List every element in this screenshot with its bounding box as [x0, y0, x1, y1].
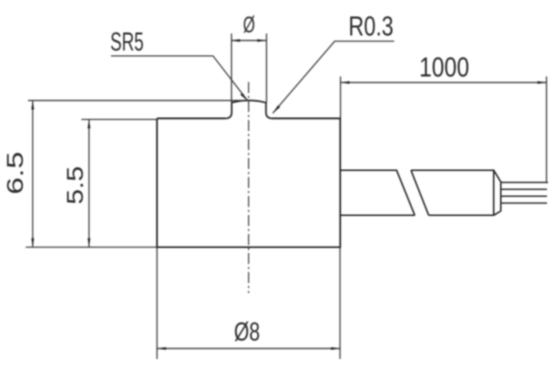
svg-text:6.5: 6.5	[2, 152, 28, 195]
wire 1	[501, 181, 548, 183]
dimension diameter top: arrows	[231, 39, 266, 42]
dimension 6.5: arrows	[31, 101, 34, 248]
dimension 1000: extension lines	[341, 76, 547, 182]
cable segment 1	[340, 170, 415, 215]
dimension 6.5: extension lines	[26, 101, 248, 248]
svg-text:R0.3: R0.3	[349, 10, 394, 41]
dimension 5.5: arrows	[88, 119, 91, 247]
dome boss SR5	[226, 100, 272, 118]
dimension diameter top: extension lines	[231, 34, 267, 103]
svg-text:SR5: SR5	[110, 26, 144, 56]
wire 4	[501, 202, 547, 204]
wire 2	[501, 188, 547, 190]
svg-text:1000: 1000	[419, 52, 469, 83]
dimension 5.5: extension lines	[81, 119, 157, 247]
leader R0.3	[273, 41, 395, 113]
centerline	[248, 82, 250, 293]
cable segment 2	[411, 170, 494, 215]
leader SR5 arrowhead	[240, 93, 247, 101]
dimension diameter 8: arrows	[157, 347, 340, 350]
leader SR5	[111, 56, 248, 101]
wire 3	[501, 195, 547, 197]
svg-text:Ø8: Ø8	[234, 316, 260, 346]
leader R0.3 arrowhead	[273, 105, 280, 113]
dimension diameter 8: extension lines	[157, 247, 340, 359]
dimension 1000: arrows	[341, 81, 547, 84]
body outline	[157, 118, 340, 247]
cable end cap	[494, 170, 501, 215]
svg-text:5.5: 5.5	[62, 166, 88, 205]
svg-text:Ø: Ø	[243, 12, 255, 38]
